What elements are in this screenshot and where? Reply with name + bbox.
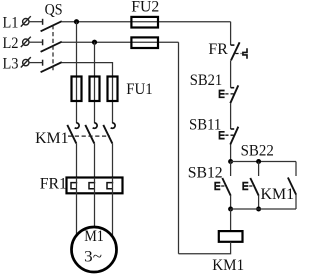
button SB21 blade [230,85,238,103]
relay FR dashed link [235,53,241,55]
thermal relay FR1 box [67,178,123,194]
wire FR1 pass-through 1 [76,178,78,236]
svg-text:SB21: SB21 [190,72,223,89]
button SB21 actuator E [220,91,225,98]
thermal relay FR1 heater 3 [107,183,113,189]
svg-text:QS: QS [45,2,63,19]
button SB11 actuator E [220,132,225,139]
thermal relay FR1 heater 1 [71,183,77,189]
wire coil to bottom return [179,242,231,254]
button SB11 NC fixed bar [231,128,235,130]
button SB22 actuator E [243,183,248,190]
wire top rail to parallel branches [231,161,296,163]
contactor KM1 main contact 1 blade [67,125,76,143]
wire SB22 lower [258,196,260,209]
switch QS pole 3 fixed contact tick [42,60,44,66]
svg-text:3~: 3~ [84,249,102,266]
fuse FU1-a [72,77,82,102]
wire SB21 to SB11 [230,103,232,129]
switch QS pole 3 blade [41,62,62,72]
switch QS pole 2 blade [41,42,62,52]
svg-text:FU2: FU2 [131,0,159,16]
fuse FU2-2 [131,37,158,48]
wire KM1 aux upper [295,162,297,177]
switch QS pole 2 fixed contact tick [42,39,44,45]
svg-text:KM1: KM1 [261,186,295,203]
svg-text:SB22: SB22 [241,143,274,160]
wire SB11 to node A [230,145,232,162]
svg-text:L3: L3 [3,56,19,73]
button SB11 dashed link [225,134,233,136]
fuse FU2-1 [131,17,158,28]
wire node B to coil [230,209,232,231]
wire L1 bus [62,21,231,23]
fuse FU1-c [108,77,118,102]
contact KM1 aux blade [288,178,296,195]
svg-text:SB11: SB11 [189,116,221,133]
svg-text:L1: L1 [3,15,19,32]
relay FR NC contact fixed bar [231,44,235,46]
node A junction dot [228,159,233,164]
wire FU2-2 to left return rail [178,42,180,254]
contactor KM1 main contact 2 arc [93,123,97,128]
wire FU2-1 to right rail [230,22,232,45]
svg-text:KM1: KM1 [35,130,69,147]
wire FR1 pass-through 3 [112,178,114,237]
coil KM1 [219,231,243,242]
contactor KM1 main contact 1 arc [75,123,79,128]
motor M1 circle [72,227,117,272]
thermal relay FR1 heater 2 [89,183,95,189]
switch QS pole 1 blade [41,21,62,31]
junction dot L1/phase-A drop [74,19,79,24]
switch QS linkage dashed line [52,25,54,71]
svg-text:FR1: FR1 [40,175,67,192]
junction dot SB22 bottom [256,207,261,212]
svg-text:M1: M1 [84,228,104,245]
switch QS pole 1 fixed contact tick [42,19,44,25]
button SB22 blade [250,178,258,196]
svg-text:KM1: KM1 [212,257,244,274]
button SB21 dashed link [225,93,233,95]
wire L1 lead-in [29,21,43,23]
wire L3 bus [62,63,113,124]
button SB22 dashed link [249,185,255,187]
node L2 terminal circle [21,37,31,47]
relay FR bimetal symbol [243,48,247,58]
junction dot SB22 top [256,159,261,164]
fuse FU1-b [90,77,100,102]
wire bottom rail of parallel branches [231,208,296,210]
wire contact 2 to FR1 [94,143,96,177]
wire SB12 lower [230,196,232,209]
wire contact 3 to FR1 [112,143,114,177]
wire phase A drop [76,22,78,124]
wire L2 bus [62,41,179,43]
wire KM1 aux lower [295,195,297,209]
svg-text:FU1: FU1 [126,81,153,98]
button SB12 actuator E [215,183,220,190]
relay FR NC contact blade [231,42,240,60]
wire SB22 upper [258,162,260,177]
wire FR to SB21 [230,60,232,87]
contactor KM1 linkage dashed line [68,135,110,137]
button SB11 blade [230,127,238,145]
button SB12 dashed link [221,185,227,187]
node B junction dot [228,207,233,212]
wire SB12 upper [230,162,232,177]
wire L2 lead-in [29,41,43,43]
junction dot L2/phase-B drop [92,40,97,45]
node L1 terminal circle [21,16,31,26]
button SB21 NC fixed bar [231,87,235,89]
svg-text:L2: L2 [3,35,19,52]
svg-text:FR: FR [208,41,228,58]
button SB12 blade [222,178,230,196]
contactor KM1 main contact 2 blade [85,125,94,143]
contactor KM1 main contact 3 arc [111,123,115,128]
contactor KM1 main contact 3 blade [103,125,112,143]
wire contact 1 to FR1 [76,143,78,177]
svg-text:SB12: SB12 [188,165,223,182]
wire FR1 pass-through 2 [94,178,96,228]
wire phase B drop [94,42,96,123]
node L3 terminal circle [21,57,31,67]
wire L3 lead-in [29,62,43,64]
